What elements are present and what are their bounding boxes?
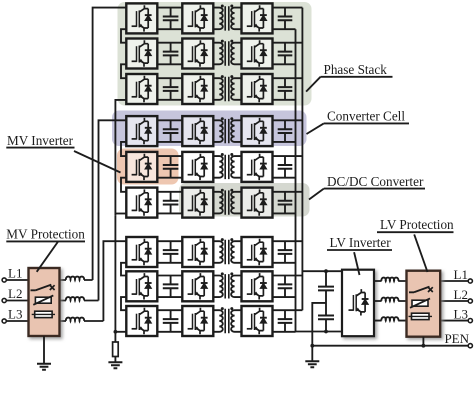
DC/DC Converter callout line (309, 189, 324, 200)
cell 1 output capacitor (284, 8, 286, 30)
cell 1 MV-side H-bridge block (126, 3, 157, 33)
cell 8 series link wire (121, 297, 126, 310)
MV L3 wire (6, 320, 28, 322)
cell 5 MV-side H-bridge block (126, 152, 157, 182)
cell 7 LV-side bridge block (242, 237, 273, 267)
MV surge arrester symbol (35, 297, 51, 303)
cell 4 LV-side bridge block (242, 116, 273, 146)
cell 2 output capacitor (284, 43, 286, 65)
cell 2 MV-side H-bridge block (126, 39, 157, 69)
MV filter inductor L2 (60, 300, 99, 302)
cell 3 dc rail wires (157, 78, 182, 100)
cell 5 LV-side bridge block (242, 152, 273, 182)
cell 4 dc rail wires (157, 120, 182, 142)
cell 7 isolation transformer (213, 241, 241, 263)
stack return bus wire (114, 215, 116, 331)
cell 3 dc-link capacitor (170, 78, 172, 100)
LV inverter box (342, 270, 374, 337)
MV Protection callout line (37, 241, 59, 271)
LV dc-link cap junction dots (324, 269, 328, 273)
MV Inverter callout line (74, 151, 121, 173)
LV inverter dc feed wire (302, 270, 342, 272)
cell 3 DC/DC primary bridge block (182, 74, 213, 104)
svg-text:L2: L2 (454, 287, 468, 302)
MV filter inductor L1 (60, 279, 93, 281)
stack 1 return wire (115, 100, 126, 215)
LV L3 wire (440, 320, 468, 322)
cell 7 output rail wires (273, 241, 303, 263)
DC/DC converter highlight band (179, 183, 310, 217)
LV earth stub wire (311, 346, 313, 361)
svg-text:LV Protection: LV Protection (380, 217, 454, 232)
LV terminal L2 (468, 299, 472, 303)
svg-text:L1: L1 (8, 266, 22, 281)
cell 4 dc-link capacitor (170, 120, 172, 142)
cell 5 DC/DC primary bridge block (182, 152, 213, 182)
cell 8 output capacitor (284, 276, 286, 298)
cell 9 output capacitor (284, 310, 286, 332)
LV dc bus positive wire (301, 8, 303, 311)
cell 3 LV-side bridge block (242, 74, 273, 104)
cell 2 output rail wires (273, 43, 303, 65)
cell 2 series link wire (121, 64, 126, 78)
cell 6 dc-link capacitor (170, 192, 172, 214)
LV fuse symbol (412, 313, 430, 319)
star point earth (108, 362, 122, 368)
MV L1 wire (6, 279, 28, 281)
LV terminal L1 (468, 279, 472, 283)
LV filter inductor L2 (374, 300, 407, 302)
cell 5 series link wire (121, 178, 126, 192)
cell 2 dc rail wires (157, 43, 182, 65)
LV Protection callout line (414, 234, 427, 272)
cell 5 isolation transformer (213, 156, 241, 178)
cell 8 output rail wires (273, 276, 303, 298)
svg-text:DC/DC Converter: DC/DC Converter (327, 174, 424, 189)
svg-text:MV Inverter: MV Inverter (7, 133, 74, 148)
cell 6 output rail wires (273, 192, 303, 214)
cell 6 MV-side H-bridge block (126, 188, 157, 218)
cell 1 series link wire (121, 29, 126, 43)
cell 7 DC/DC primary bridge block (182, 237, 213, 267)
cell 8 MV-side H-bridge block (126, 271, 157, 301)
cell 5 dc-link capacitor (170, 156, 172, 178)
cell 1 dc rail wires (157, 8, 182, 30)
cell 1 isolation transformer (213, 8, 241, 30)
LV L2 wire (440, 300, 468, 302)
MV terminal L3 (2, 319, 6, 323)
MV breaker symbol (31, 285, 52, 291)
cell 5 output rail wires (273, 156, 303, 178)
LV dc bus negative wire (296, 29, 343, 331)
svg-text:PEN: PEN (444, 331, 469, 346)
cell 2 isolation transformer (213, 43, 241, 65)
MV protection box (29, 268, 60, 336)
LV dc-link wire (325, 271, 327, 331)
cell 8 isolation transformer (213, 276, 241, 298)
cell 6 DC/DC primary bridge block (182, 188, 213, 218)
stack 2 return wire (115, 213, 126, 215)
cell 5 output capacitor (284, 156, 286, 178)
cell 5 dc rail wires (157, 156, 182, 178)
cell 9 LV-side bridge block (242, 306, 273, 336)
cell 9 isolation transformer (213, 310, 241, 332)
cell 9 DC/DC primary bridge block (182, 306, 213, 336)
svg-text:Converter Cell: Converter Cell (327, 109, 405, 124)
phase stack highlight band (118, 2, 312, 106)
cell 9 output rail wires (273, 310, 303, 332)
MV inverter highlight band (117, 149, 179, 185)
LV midpoint tap wire (312, 303, 326, 346)
cell 8 dc rail wires (157, 276, 182, 298)
cell 9 dc-link capacitor (170, 310, 172, 332)
cell 1 output rail wires (273, 8, 303, 30)
cell 7 MV-side H-bridge block (126, 237, 157, 267)
cell 9 MV-side H-bridge block (126, 306, 157, 336)
cell 1 LV-side bridge block (242, 3, 273, 33)
svg-text:L2: L2 (8, 286, 22, 301)
PEN junction dot (310, 344, 314, 348)
MV terminal L1 (2, 278, 6, 282)
LV Inverter callout line (354, 252, 359, 275)
cell 7 dc rail wires (157, 241, 182, 263)
star point junction (114, 330, 118, 334)
svg-text:LV Inverter: LV Inverter (330, 235, 392, 250)
LV filter inductor L3 (374, 320, 407, 322)
cell 1 dc-link capacitor (170, 8, 172, 30)
cell 3 MV-side H-bridge block (126, 74, 157, 104)
svg-text:L3: L3 (8, 307, 22, 322)
LV surge arrester symbol (412, 300, 428, 306)
cell 8 dc-link capacitor (170, 276, 172, 298)
LV terminal L3 (468, 319, 472, 323)
cell 1 DC/DC primary bridge block (182, 3, 213, 33)
svg-text:Phase Stack: Phase Stack (324, 62, 388, 77)
cell 2 dc-link capacitor (170, 43, 172, 65)
neutral grounding resistor (114, 332, 116, 362)
cell 2 LV-side bridge block (242, 39, 273, 69)
LV L1 wire (440, 280, 468, 282)
svg-text:MV Protection: MV Protection (6, 227, 85, 242)
converter cell highlight band (112, 111, 307, 147)
cell 8 DC/DC primary bridge block (182, 271, 213, 301)
phase B riser wire (99, 120, 127, 300)
cell 3 isolation transformer (213, 78, 241, 100)
cell 4 output capacitor (284, 120, 286, 142)
LV earth (305, 361, 319, 367)
PEN terminal (468, 344, 472, 348)
cell 7 series link wire (121, 263, 126, 276)
svg-text:L1: L1 (454, 267, 468, 282)
cell 4 series link wire (121, 142, 126, 156)
cell 6 dc rail wires (157, 192, 182, 214)
cell 6 output capacitor (284, 192, 286, 214)
MV protection earth (37, 364, 51, 370)
phase C riser wire (103, 241, 126, 321)
phase A riser wire (93, 8, 127, 280)
cell 3 output capacitor (284, 78, 286, 100)
MV terminal L2 (2, 298, 6, 302)
LV dc-link capacitor lower (318, 316, 334, 320)
svg-text:L3: L3 (454, 306, 468, 321)
LV filter inductor L1 (374, 280, 407, 282)
cell 9 dc rail wires (157, 310, 182, 332)
cell 4 output rail wires (273, 120, 303, 142)
Converter Cell callout line (307, 123, 324, 134)
PEN wire (312, 345, 468, 347)
cell 4 isolation transformer (213, 120, 241, 142)
cell 8 LV-side bridge block (242, 271, 273, 301)
MV L2 wire (6, 300, 28, 302)
cell 6 LV-side bridge block (242, 188, 273, 218)
cell 6 isolation transformer (213, 192, 241, 214)
cell 2 DC/DC primary bridge block (182, 39, 213, 69)
MV protection earth stub (43, 336, 45, 363)
MV fuse symbol (35, 311, 52, 317)
LV protection PEN stub (422, 337, 424, 346)
stack 3 return wire (115, 331, 126, 333)
cell 3 output rail wires (273, 78, 303, 100)
cell 7 output capacitor (284, 241, 286, 263)
MV filter inductor L3 (60, 320, 104, 322)
cell 4 MV-side H-bridge block (126, 116, 157, 146)
LV breaker symbol (409, 287, 430, 293)
cell 7 dc-link capacitor (170, 241, 172, 263)
cell 4 DC/DC primary bridge block (182, 116, 213, 146)
LV protection box (407, 271, 441, 337)
Phase Stack callout line (306, 77, 320, 92)
LV dc-link capacitor upper (318, 287, 334, 291)
